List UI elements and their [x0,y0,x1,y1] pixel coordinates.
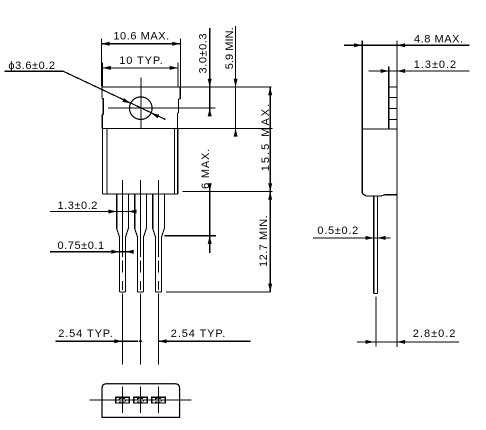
bottom view pin 2 [134,386,148,413]
mounting hole [130,97,153,120]
front view heatsink tab [102,87,271,128]
dimension 1.3±0.2 lead width [50,200,137,213]
dimension 10.6 MAX overall width [101,31,180,87]
lead 1 front view [117,180,129,365]
reference line seating plane [183,191,273,193]
dimension 10 TYP body width [103,55,178,87]
lead 3 front view [153,180,165,365]
svg-text:5.9 MIN.: 5.9 MIN. [224,27,236,69]
side view molded body [362,40,397,196]
svg-text:1.3±0.2: 1.3±0.2 [414,59,457,71]
bottom view horizontal centerline [89,399,191,401]
svg-text:3.0±0.3: 3.0±0.3 [198,33,210,73]
bottom view pin 3 [152,386,166,413]
svg-text:0.75±0.1: 0.75±0.1 [58,240,105,252]
dimension 0.5±0.2 lead thickness [313,225,390,240]
svg-text:6 MAX.: 6 MAX. [200,148,212,189]
svg-text:2.54 TYP.: 2.54 TYP. [58,328,113,340]
dimension 2.54 TYP lead pitch right [159,328,251,343]
dimension 5.9 MIN tab length [224,26,237,137]
svg-text:2.54 TYP.: 2.54 TYP. [171,328,226,340]
svg-text:4.8 MAX.: 4.8 MAX. [414,34,464,46]
svg-text:12.7 MIN.: 12.7 MIN. [258,215,270,267]
svg-text:10.6 MAX.: 10.6 MAX. [113,31,169,43]
dimension 15.5 MAX overall height [260,87,272,192]
side view lead [374,196,378,347]
svg-text:10 TYP.: 10 TYP. [119,55,163,67]
svg-text:ϕ3.6±0.2: ϕ3.6±0.2 [8,60,55,72]
side view tab [389,40,397,347]
svg-text:0.5±0.2: 0.5±0.2 [317,225,359,237]
bottom view pin 1 [116,386,130,413]
dimension 3.0±0.3 hole position [198,28,212,116]
front view molded body [102,128,272,194]
dimension 1.3±0.2 tab thickness [369,59,470,73]
bottom view package outline [102,384,180,418]
lead 2 front view [135,180,147,365]
dimension 2.54 TYP lead pitch left [55,328,142,343]
svg-text:2.8±0.2: 2.8±0.2 [413,328,457,340]
dimension 6 MAX lead shoulder [165,148,216,253]
dimension 4.8 MAX package depth [344,34,470,48]
dimension 0.75±0.1 lead tip width [50,240,134,254]
dimension 12.7 MIN lead length [166,192,272,292]
hole centerlines [108,78,216,129]
svg-text:1.3±0.2: 1.3±0.2 [58,200,98,212]
dimension 2.8±0.2 lead offset [357,328,459,344]
leader ø3.6±0.2 mounting hole diameter [5,60,166,120]
